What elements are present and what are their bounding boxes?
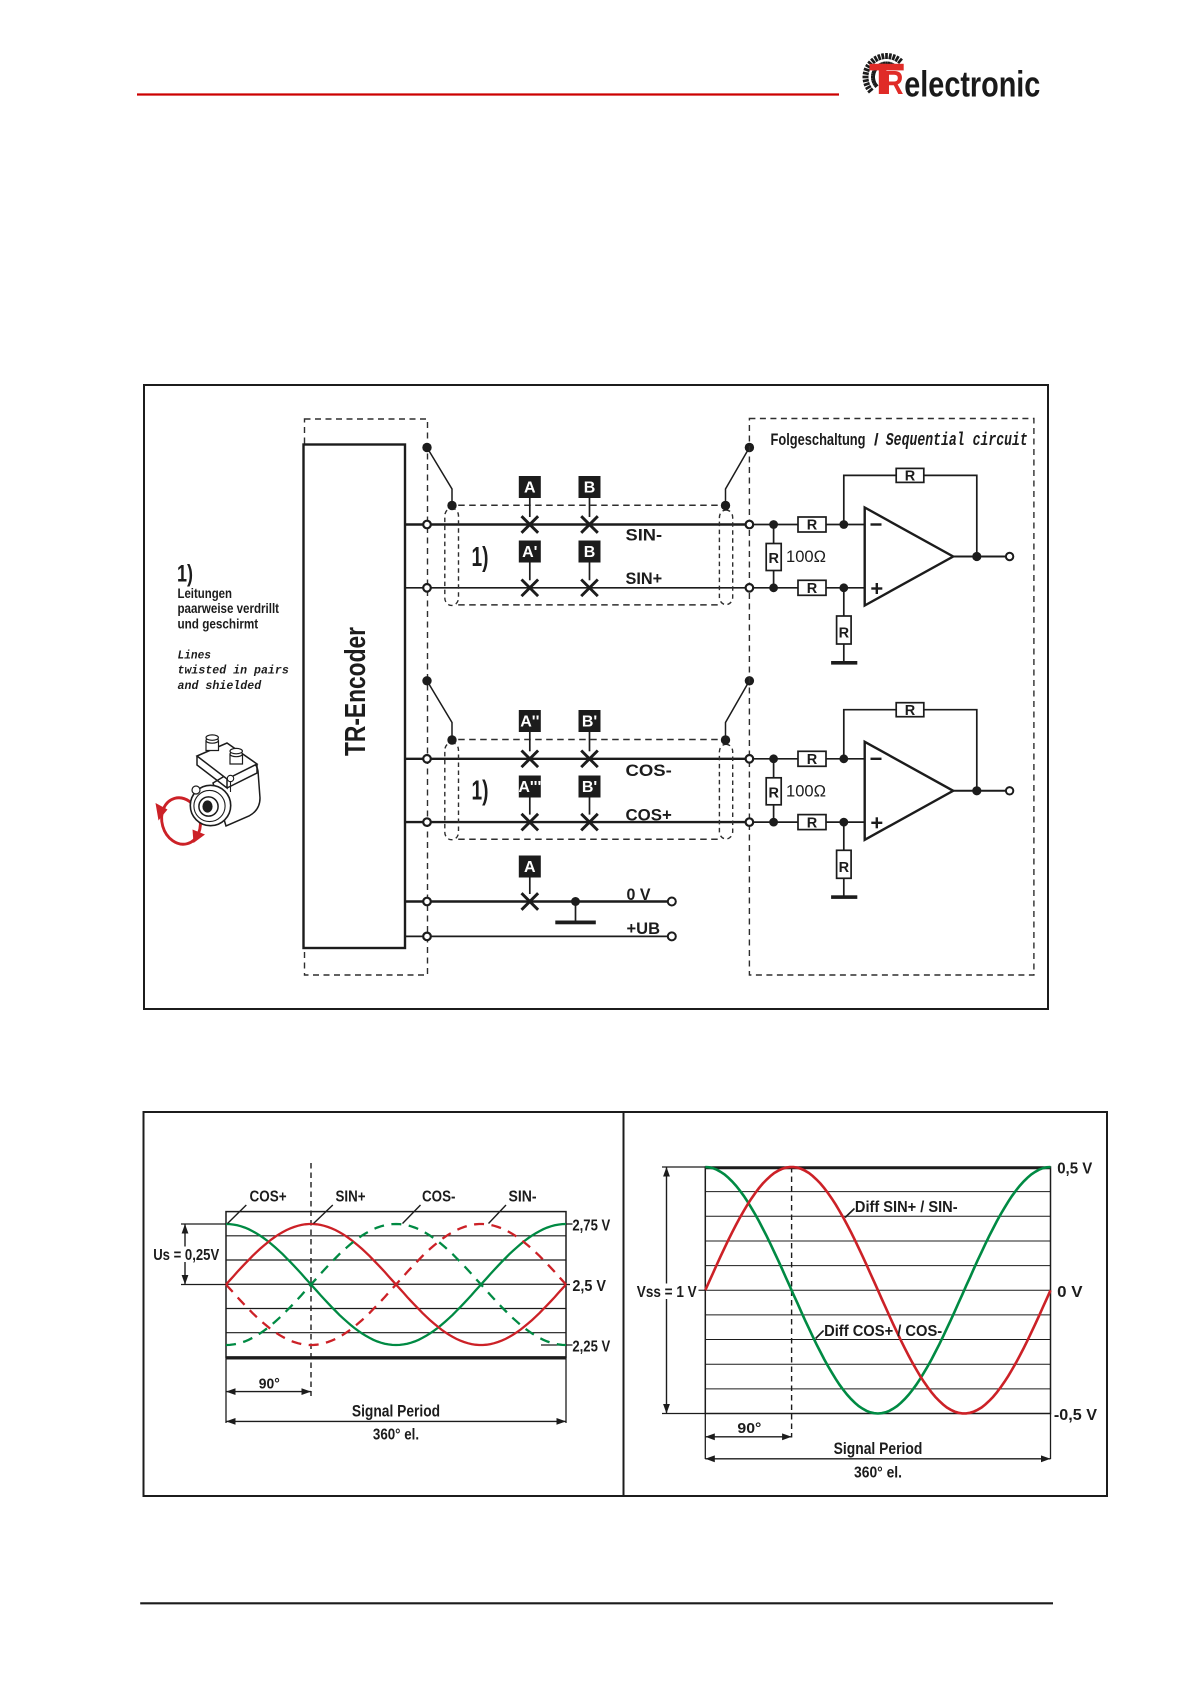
shield tie SIN right - junction — [721, 501, 730, 510]
svg-text:Signal Period: Signal Period — [834, 1440, 923, 1458]
svg-text:COS-: COS- — [626, 761, 672, 780]
svg-text:B: B — [584, 544, 596, 561]
svg-text:R: R — [839, 860, 850, 876]
test point B — [579, 476, 601, 498]
terminal +UB — [668, 932, 676, 940]
leader Diff COS — [816, 1331, 824, 1339]
chart frame — [144, 1112, 1108, 1496]
left chart gridlines — [226, 1236, 566, 1333]
Us dimension arrow — [184, 1224, 186, 1285]
twist mark B' on COS+ — [581, 814, 598, 831]
shield tie SIN left - node — [422, 443, 431, 452]
shield tie COS left - junction — [447, 735, 456, 744]
encoder shield dashed boundary — [305, 419, 428, 975]
svg-text:2,25 V: 2,25 V — [572, 1339, 610, 1356]
cable shield SIN pair (dashed) — [458, 504, 720, 506]
lead B' — [589, 732, 591, 751]
test point A' — [519, 541, 541, 563]
node SIN non-inverting input — [839, 583, 848, 592]
op-amp U SIN — [865, 508, 954, 606]
lead A (0V) — [529, 878, 531, 895]
svg-text:R: R — [905, 703, 916, 719]
encoder pin +UB — [423, 933, 431, 941]
termination resistor R 100ohm COS — [773, 759, 775, 778]
test point A (0V) — [519, 856, 541, 878]
left chart period boundary left — [225, 1357, 227, 1423]
curve Diff SIN (red) — [705, 1167, 1050, 1413]
wire SIN- from pin to resistor — [753, 524, 798, 526]
termination resistor R 100ohm SIN — [773, 525, 775, 544]
svg-text:Folgeschaltung: Folgeschaltung — [771, 431, 866, 449]
twist mark A on SIN- — [522, 516, 539, 533]
wire COS- (encoder to circuit) — [405, 758, 749, 760]
shield tie SIN left - junction — [447, 501, 456, 510]
op-amp SIN minus sign — [871, 523, 882, 525]
right chart top heavy line — [705, 1167, 1050, 1170]
svg-text:1): 1) — [472, 541, 489, 572]
curve COS- (green dashed) — [226, 1224, 566, 1345]
90 deg arrow right chart — [705, 1436, 791, 1438]
encoder pin SIN+ — [423, 584, 431, 592]
cable shield COS pair (dashed) — [458, 739, 720, 741]
left chart 90 deg dashed cursor — [310, 1163, 312, 1396]
circuit pin COS- (dashed box entry) — [746, 755, 754, 763]
svg-text:Sequential circuit: Sequential circuit — [886, 431, 1028, 451]
ground SIN — [831, 661, 857, 665]
svg-text:R: R — [807, 518, 818, 534]
curve SIN- (red dashed) — [226, 1224, 566, 1345]
shield tie SIN left - wire — [427, 448, 452, 505]
twist mark A on 0V — [522, 893, 539, 910]
signal period arrow left chart — [226, 1420, 566, 1422]
svg-text:TR-Encoder: TR-Encoder — [340, 627, 372, 756]
feedback resistor R COS — [896, 703, 924, 717]
encoder pin SIN- — [423, 521, 431, 529]
lead B — [589, 563, 591, 581]
shield tie SIN right - node — [745, 443, 754, 452]
left chart tick to 2,75 V label — [566, 1223, 573, 1225]
svg-text:SIN+: SIN+ — [626, 569, 663, 588]
node SIN+ at termination — [769, 583, 778, 592]
encoder illustration - terminal box — [197, 743, 257, 779]
bias resistor R SIN to ground — [843, 588, 845, 616]
output node COS — [972, 786, 981, 795]
chart divider — [623, 1112, 625, 1496]
svg-text:electronic: electronic — [904, 63, 1040, 104]
node SIN inverting input — [839, 520, 848, 529]
wire SIN+ into op-amp — [826, 587, 865, 589]
sequential circuit dashed boundary — [749, 419, 1034, 976]
Vss reference line bottom — [662, 1413, 705, 1415]
Vss label tick to 0V line — [699, 1289, 706, 1291]
svg-text:Signal Period: Signal Period — [352, 1402, 440, 1420]
svg-text:1): 1) — [472, 775, 489, 806]
svg-text:COS+: COS+ — [626, 806, 672, 825]
terminal 0V — [668, 898, 676, 906]
op-amp U COS — [865, 742, 954, 840]
logo TR electronic - encoder disc tick marks — [863, 53, 902, 92]
label Vss = 1 V — [635, 1284, 698, 1300]
shield tie COS right - junction — [721, 735, 730, 744]
left chart tick to 2,25 V label — [541, 1344, 573, 1346]
wire COS- from pin to resistor — [753, 758, 798, 760]
node COS+ at termination — [769, 818, 778, 827]
output wire COS — [953, 790, 1006, 792]
wire COS+ into op-amp — [826, 821, 865, 823]
svg-text:R: R — [807, 581, 818, 597]
svg-text:A': A' — [522, 544, 537, 561]
encoder pin COS- — [423, 755, 431, 763]
input resistor R SIN+ — [798, 580, 826, 595]
svg-text:-0,5 V: -0,5 V — [1054, 1407, 1097, 1424]
svg-text:R: R — [883, 64, 904, 101]
bias resistor R COS to ground — [843, 822, 845, 850]
wire SIN- (encoder to circuit) — [405, 523, 749, 525]
right chart grid border — [705, 1167, 1050, 1414]
header red rule — [137, 93, 839, 95]
svg-text:A''': A''' — [518, 779, 541, 796]
test point A''' — [518, 776, 541, 798]
node COS- at termination — [769, 754, 778, 763]
test point A'' — [519, 710, 541, 732]
svg-text:twisted in pairs: twisted in pairs — [178, 664, 289, 678]
input resistor R COS+ — [798, 815, 826, 830]
svg-text:R: R — [807, 752, 818, 768]
twist mark B' on COS- — [581, 751, 598, 768]
twist mark B on SIN+ — [581, 580, 598, 597]
feedback wire COS — [844, 710, 977, 791]
encoder illustration - flange disc — [190, 785, 230, 825]
lead A'' — [529, 732, 531, 751]
svg-text:Lines: Lines — [178, 648, 212, 662]
encoder pin COS+ — [423, 818, 431, 826]
feedback wire SIN — [844, 475, 977, 556]
ground COS — [831, 895, 857, 899]
label Us = 0,25V — [151, 1247, 223, 1263]
leader COS+ — [228, 1205, 247, 1224]
wire COS+ (encoder to circuit) — [405, 821, 749, 823]
signal period arrow right chart — [705, 1458, 1050, 1460]
twist mark A'' on COS- — [522, 751, 539, 768]
svg-text:90°: 90° — [259, 1376, 280, 1393]
encoder block TR-Encoder — [304, 445, 406, 949]
circuit pin COS+ (dashed box entry) — [746, 818, 754, 826]
right chart period boundary left — [704, 1414, 706, 1460]
svg-text:Us = 0,25V: Us = 0,25V — [153, 1247, 219, 1264]
op-amp COS minus sign — [871, 758, 882, 760]
svg-text:R: R — [905, 469, 916, 485]
curve SIN+ (red solid) — [226, 1224, 566, 1345]
encoder illustration - mounting screw — [227, 775, 233, 792]
right chart gridlines — [705, 1192, 1050, 1389]
left chart tick to 2,5 V label — [566, 1284, 570, 1286]
test point B' — [579, 710, 601, 732]
input resistor R COS- — [798, 751, 826, 766]
svg-text:Diff SIN+ / SIN-: Diff SIN+ / SIN- — [855, 1199, 958, 1216]
encoder illustration - cable gland right — [230, 748, 243, 764]
svg-text:A'': A'' — [520, 714, 539, 731]
shield tie COS right - wire — [726, 681, 750, 739]
left chart level line 2.75V extension — [181, 1223, 226, 1225]
ground bar — [555, 921, 596, 925]
lead B — [589, 498, 591, 517]
svg-text:SIN-: SIN- — [626, 526, 663, 545]
schematic frame — [144, 385, 1048, 1009]
svg-text:0 V: 0 V — [627, 885, 652, 904]
wire SIN+ (encoder to circuit) — [405, 587, 749, 589]
leader SIN- — [489, 1205, 507, 1224]
curve COS+ (green solid) — [226, 1224, 566, 1345]
ground stem — [575, 902, 577, 922]
node SIN- at termination — [769, 520, 778, 529]
svg-text:2,75 V: 2,75 V — [572, 1217, 610, 1234]
input resistor R SIN- — [798, 517, 826, 532]
svg-text:100Ω: 100Ω — [786, 547, 826, 566]
wire COS- into op-amp — [826, 758, 865, 760]
feedback resistor R SIN — [896, 468, 924, 482]
svg-text:B': B' — [582, 779, 597, 796]
Vss dimension arrow — [666, 1167, 668, 1414]
svg-text:SIN+: SIN+ — [336, 1188, 366, 1205]
output wire SIN — [953, 556, 1006, 558]
svg-text:360° el.: 360° el. — [373, 1427, 419, 1444]
left chart level line 2.5V extension — [181, 1284, 226, 1286]
shield tie COS right - node — [745, 676, 754, 685]
shield tie COS left - wire — [427, 681, 452, 739]
right chart period boundary right — [1050, 1414, 1052, 1460]
svg-text:90°: 90° — [737, 1420, 761, 1437]
twist mark A' on SIN+ — [522, 580, 539, 597]
test point A — [519, 476, 541, 498]
output terminal SIN — [1006, 553, 1013, 560]
wire SIN- into op-amp — [826, 524, 865, 526]
lead A''' — [529, 798, 531, 815]
svg-text:COS-: COS- — [422, 1188, 456, 1205]
svg-text:360° el.: 360° el. — [854, 1464, 902, 1481]
encoder illustration - cable gland left — [206, 735, 219, 751]
encoder illustration - body cylinder — [213, 763, 260, 826]
shield tie SIN right - wire — [726, 448, 750, 505]
svg-text:R: R — [839, 626, 850, 642]
encoder illustration - rotation arrow (red ellipse) — [156, 793, 205, 849]
svg-text:B': B' — [582, 714, 597, 731]
curve Diff COS (green) — [705, 1167, 1050, 1414]
twist mark B on SIN- — [581, 516, 598, 533]
left chart grid border — [226, 1212, 566, 1357]
footer rule — [140, 1602, 1053, 1604]
svg-text:R: R — [807, 815, 818, 831]
lead A — [529, 498, 531, 517]
circuit pin SIN+ (dashed box entry) — [746, 584, 754, 592]
leader COS- — [403, 1205, 421, 1224]
lead B' — [589, 798, 591, 815]
op-amp COS plus sign — [871, 822, 882, 824]
svg-text:Leitungen: Leitungen — [178, 586, 233, 601]
encoder pin 0V — [423, 898, 431, 906]
svg-text:/: / — [874, 431, 879, 449]
left chart grid bottom heavy line — [226, 1357, 566, 1360]
output terminal COS — [1006, 787, 1013, 794]
Vss reference line top — [662, 1166, 705, 1168]
twist mark A''' on COS+ — [522, 814, 539, 831]
test point B — [579, 541, 601, 563]
node COS inverting input — [839, 754, 848, 763]
leader Diff SIN — [845, 1209, 854, 1218]
left chart period boundary right — [565, 1357, 567, 1423]
logo letter T (red) — [870, 64, 904, 94]
wire COS+ from pin to resistor — [753, 821, 798, 823]
wire 0V — [405, 900, 668, 902]
ground tap node on 0V — [571, 897, 580, 906]
shield tie COS left - node — [422, 676, 431, 685]
right chart 90 deg dashed cursor — [791, 1167, 793, 1438]
node COS non-inverting input — [839, 818, 848, 827]
90 deg arrow left chart — [226, 1391, 311, 1393]
leader SIN+ — [314, 1205, 333, 1224]
svg-text:2,5 V: 2,5 V — [572, 1278, 606, 1295]
wire SIN+ from pin to resistor — [753, 587, 798, 589]
svg-text:100Ω: 100Ω — [786, 781, 826, 800]
svg-text:A: A — [524, 859, 536, 876]
svg-text:0 V: 0 V — [1057, 1284, 1083, 1301]
svg-text:and shielded: and shielded — [178, 679, 262, 693]
svg-text:und geschirmt: und geschirmt — [178, 617, 259, 632]
svg-text:COS+: COS+ — [250, 1188, 287, 1205]
svg-text:0,5 V: 0,5 V — [1057, 1161, 1092, 1178]
op-amp SIN plus sign — [871, 587, 882, 589]
svg-text:R: R — [768, 785, 779, 801]
svg-text:1): 1) — [177, 561, 193, 588]
circuit pin SIN- (dashed box entry) — [746, 521, 754, 529]
svg-text:Diff COS+ / COS-: Diff COS+ / COS- — [824, 1323, 942, 1340]
output node SIN — [972, 552, 981, 561]
wire +UB — [405, 935, 668, 937]
svg-text:R: R — [768, 551, 779, 567]
svg-text:B: B — [584, 480, 596, 497]
svg-text:A: A — [524, 480, 536, 497]
lead A' — [529, 563, 531, 581]
svg-text:Vss = 1 V: Vss = 1 V — [637, 1284, 697, 1301]
svg-text:+UB: +UB — [627, 919, 661, 938]
svg-text:paarweise verdrillt: paarweise verdrillt — [178, 601, 280, 616]
svg-text:SIN-: SIN- — [509, 1188, 537, 1205]
test point B' — [579, 776, 601, 798]
